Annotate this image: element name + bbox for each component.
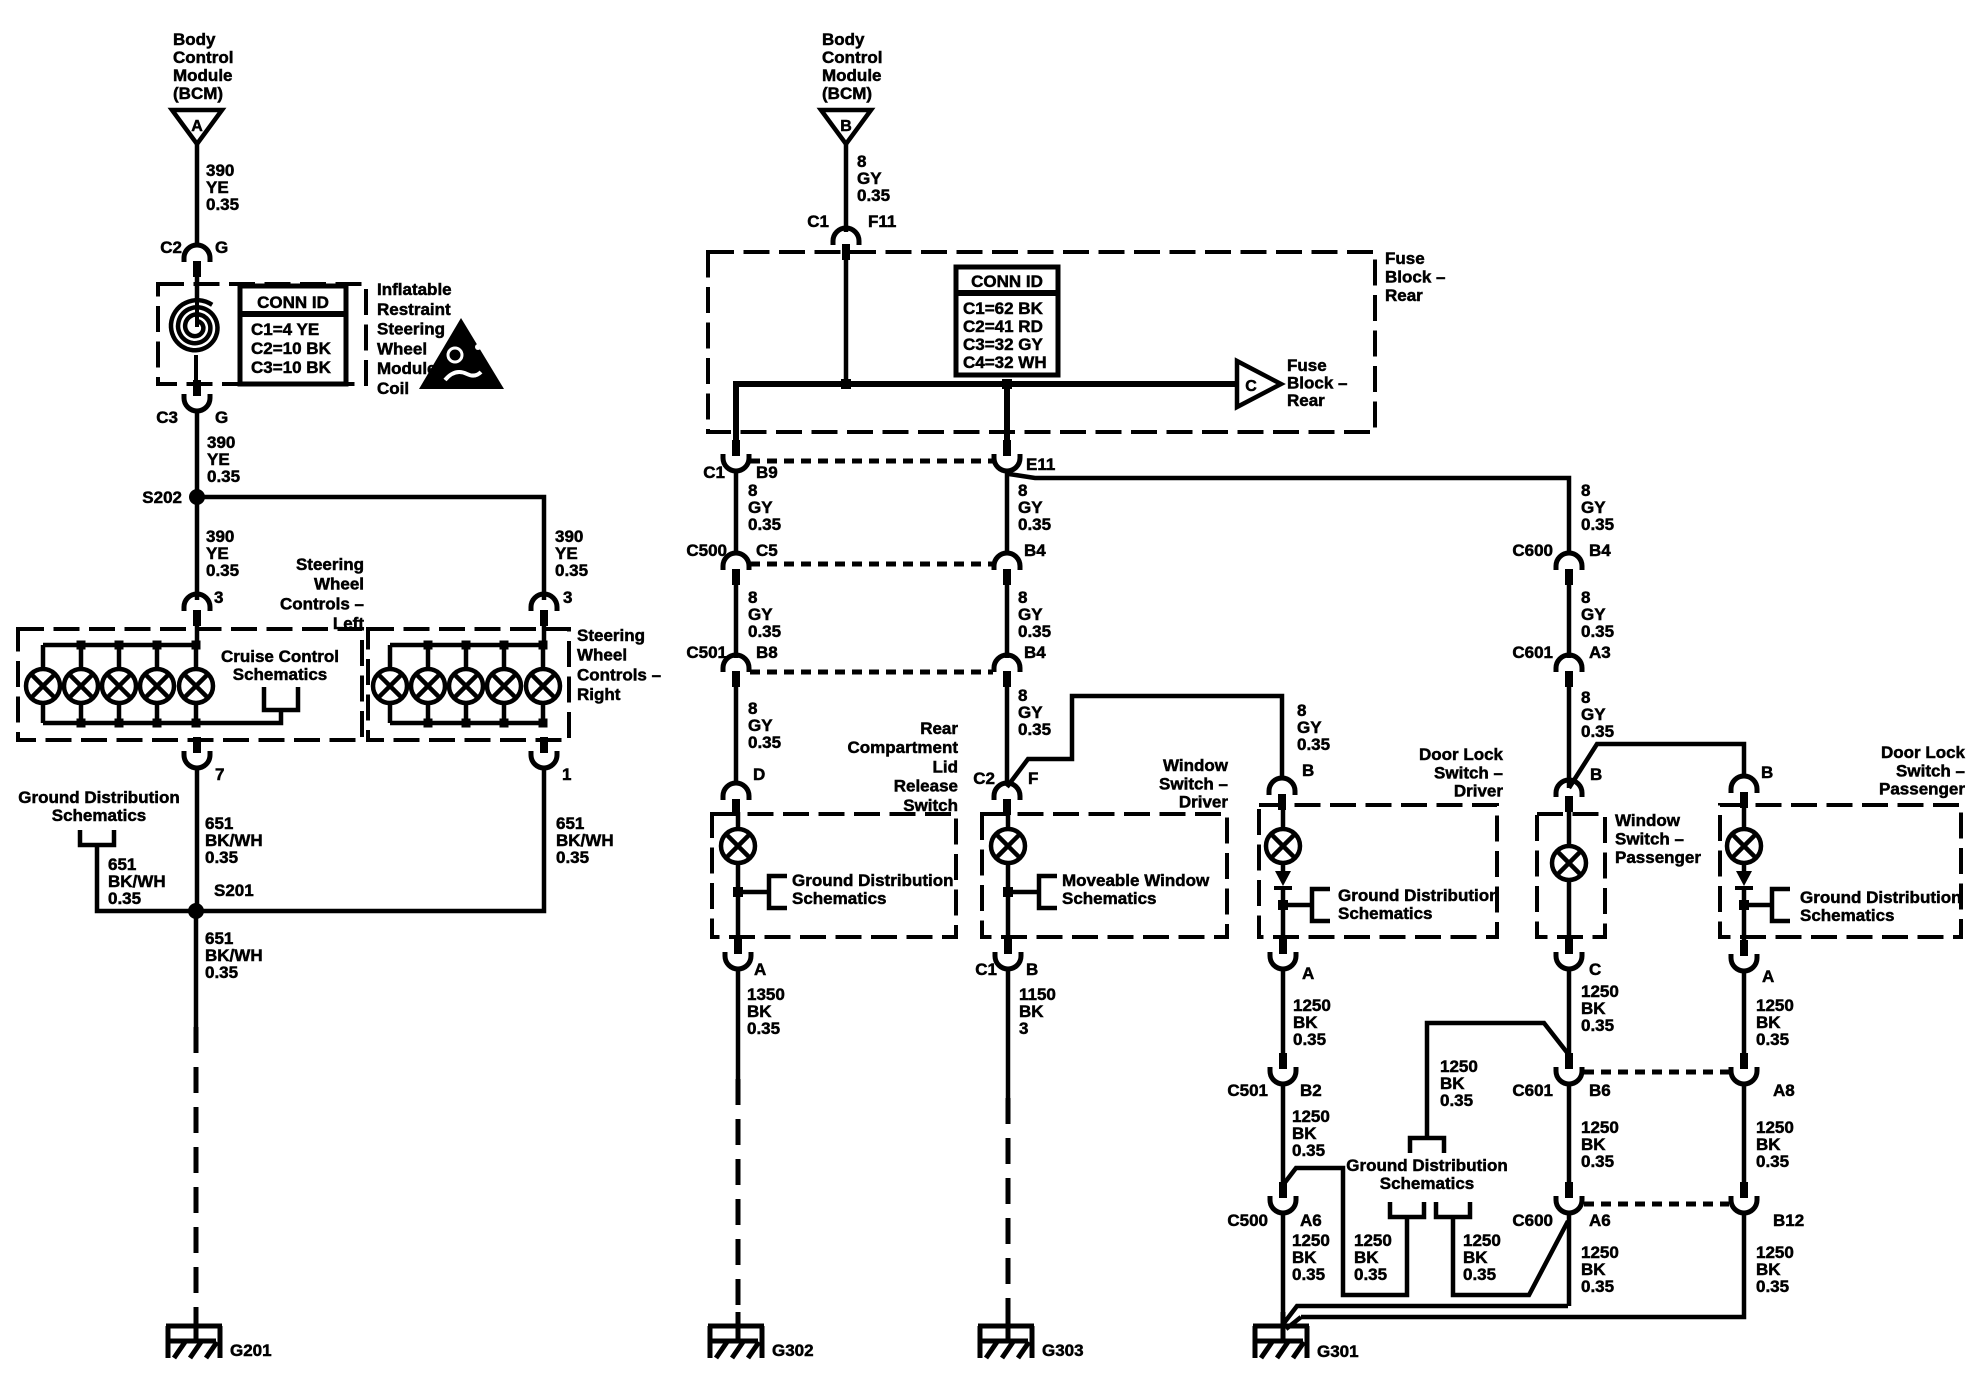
junction dot (door lock driver)	[1278, 900, 1288, 910]
connector C500 pin C5	[723, 553, 749, 570]
switch lamps bank right (5 lamps)	[388, 645, 393, 669]
svg-text:Rear: Rear	[1385, 286, 1423, 305]
svg-text:Rear: Rear	[1287, 391, 1325, 410]
wire E11 to C600/B4	[1007, 471, 1569, 553]
svg-text:Ground Distribution: Ground Distribution	[18, 788, 179, 807]
svg-text:Fuse: Fuse	[1287, 356, 1327, 375]
wire 8 GY A3 to window passenger pin B	[1567, 687, 1572, 788]
svg-text:Steering: Steering	[377, 320, 445, 339]
dashed box Steering Wheel Controls - Right	[368, 629, 569, 740]
wire bracket right to C600/A6	[1453, 1217, 1568, 1295]
svg-text:0.35: 0.35	[1581, 722, 1614, 741]
lamp bus bottom (right box)	[390, 721, 544, 726]
wire 8 GY E11 to B4	[1005, 471, 1010, 553]
svg-text:E11: E11	[1026, 455, 1055, 474]
wire 8 GY B4 to B4	[1005, 585, 1010, 658]
wire bus to E11	[1004, 384, 1010, 445]
svg-text:Door Lock: Door Lock	[1881, 743, 1966, 762]
svg-text:C601: C601	[1512, 1081, 1553, 1100]
svg-text:3: 3	[563, 588, 572, 607]
svg-text:(BCM): (BCM)	[173, 84, 223, 103]
wire lamp to diode (door lock passenger)	[1742, 863, 1747, 872]
svg-text:B4: B4	[1024, 643, 1046, 662]
connector C601 pin B6	[1565, 1053, 1573, 1069]
svg-text:C3=32 GY: C3=32 GY	[963, 335, 1044, 354]
connector pin D	[723, 783, 749, 800]
svg-text:Compartment: Compartment	[847, 738, 958, 757]
svg-text:G201: G201	[230, 1341, 272, 1360]
svg-text:C1: C1	[975, 960, 997, 979]
off-page bracket Ground Distribution (lid release)	[769, 876, 787, 908]
svg-text:C4=32 WH: C4=32 WH	[963, 353, 1047, 372]
wire 1250 BK B12 to ground bus	[1301, 1212, 1744, 1317]
CONN ID table (coil)	[240, 286, 346, 384]
diode symbol (door lock passenger)	[1736, 871, 1752, 886]
svg-text:C2: C2	[973, 769, 995, 788]
switch lamps bank left (5 lamps)	[41, 645, 46, 669]
switch lamp (rear lid release)	[721, 829, 755, 863]
svg-text:G301: G301	[1317, 1342, 1359, 1361]
svg-text:Ground Distribution: Ground Distribution	[792, 871, 953, 890]
ground G303	[1006, 1312, 1011, 1341]
svg-text:Driver: Driver	[1179, 793, 1229, 812]
svg-text:C2=10 BK: C2=10 BK	[251, 339, 332, 358]
dashed wire to ground G302	[736, 1079, 741, 1326]
svg-text:C600: C600	[1512, 541, 1553, 560]
connector B4 (1)	[994, 553, 1020, 570]
junction dot bus at F11 wire	[841, 379, 851, 389]
connector pin A (door lock passenger)	[1740, 940, 1748, 956]
wire 651 BK/WH from pin 7 to S201	[195, 766, 200, 911]
ground G301	[1281, 1312, 1286, 1341]
svg-text:C501: C501	[1227, 1081, 1268, 1100]
lamp bus top (left box)	[43, 643, 197, 648]
svg-text:Schematics: Schematics	[1380, 1174, 1475, 1193]
svg-text:0.35: 0.35	[206, 561, 239, 580]
svg-text:0.35: 0.35	[205, 848, 238, 867]
svg-text:S202: S202	[142, 488, 182, 507]
junction dot (lid release)	[733, 887, 743, 897]
connector pin 3 left	[184, 594, 210, 611]
svg-text:B2: B2	[1300, 1081, 1322, 1100]
svg-text:Switch –: Switch –	[1896, 761, 1965, 780]
connector pin A (lid release)	[734, 938, 742, 954]
dashed box Fuse Block - Rear	[708, 252, 1375, 432]
svg-text:0.35: 0.35	[1756, 1277, 1789, 1296]
wire branch B2 to ground distribution bracket (left)	[1283, 1168, 1407, 1295]
wire 1150 BK pin B to ground (solid)	[1006, 969, 1011, 1098]
CONN ID table (fuse block)	[956, 267, 1058, 375]
svg-text:0.35: 0.35	[1756, 1152, 1789, 1171]
svg-text:Schematics: Schematics	[1800, 906, 1895, 925]
svg-text:Schematics: Schematics	[233, 665, 328, 684]
svg-text:Controls –: Controls –	[280, 594, 364, 613]
svg-text:0.35: 0.35	[1581, 1277, 1614, 1296]
svg-text:B: B	[1026, 960, 1038, 979]
svg-text:Fuse: Fuse	[1385, 249, 1425, 268]
svg-text:1: 1	[562, 765, 571, 784]
wire 651 BK/WH S201 to G201 (solid part)	[194, 911, 199, 1027]
svg-text:7: 7	[215, 765, 224, 784]
connector pin 3 right	[531, 594, 557, 611]
svg-text:Switch –: Switch –	[1159, 774, 1228, 793]
connector E11	[1003, 440, 1011, 456]
wire C2 into coil box	[195, 277, 200, 302]
svg-text:0.35: 0.35	[748, 733, 781, 752]
svg-text:A3: A3	[1589, 643, 1611, 662]
wire lamp to diode (door lock driver)	[1281, 863, 1286, 872]
wire pin3 stub into right lamp bus	[542, 626, 547, 645]
connector C600 pin A6 (right)	[1565, 1182, 1573, 1198]
wire F11 stub into fuse block	[844, 260, 849, 384]
svg-text:B4: B4	[1589, 541, 1611, 560]
svg-text:Restraint: Restraint	[377, 300, 451, 319]
wire pin B into lamp (door lock driver)	[1281, 810, 1286, 829]
wire 1250 BK A8 to B12	[1742, 1082, 1747, 1182]
wire splice S202 branch to right steering controls	[197, 497, 544, 600]
svg-text:A: A	[191, 118, 203, 135]
svg-text:Block –: Block –	[1385, 268, 1445, 287]
off-page bracket Ground Distribution (upper, to C601 wire)	[1410, 1138, 1444, 1153]
svg-text:Wheel: Wheel	[377, 339, 427, 358]
connector pin A8	[1740, 1053, 1748, 1069]
svg-text:0.35: 0.35	[857, 186, 890, 205]
svg-text:C5: C5	[756, 541, 778, 560]
svg-text:0.35: 0.35	[1354, 1265, 1387, 1284]
connector pin 7	[193, 737, 201, 753]
connector pin B (window passenger)	[1556, 780, 1582, 797]
wire 390 YE from triangle A to C2	[195, 144, 200, 246]
svg-text:0.35: 0.35	[1440, 1091, 1473, 1110]
off-page arrow C to Fuse Block - Rear	[1237, 361, 1281, 407]
ground bus 1 from C600/A6	[1284, 1306, 1568, 1323]
connector C3 pin G	[193, 380, 201, 396]
svg-text:Schematics: Schematics	[792, 889, 887, 908]
svg-text:0.35: 0.35	[1292, 1265, 1325, 1284]
wire 8 GY from triangle B to C1/F11	[844, 144, 849, 232]
wire 1250 BK pin A to C501/B2	[1281, 969, 1286, 1053]
svg-text:0.35: 0.35	[1018, 720, 1051, 739]
svg-text:Cruise Control: Cruise Control	[221, 647, 339, 666]
connector B4 (2)	[994, 655, 1020, 672]
wire lamp to pin A with branch	[736, 863, 741, 938]
svg-text:B8: B8	[756, 643, 778, 662]
off-page bracket to Cruise Control Schematics	[264, 687, 298, 710]
splice S202	[189, 489, 205, 505]
svg-text:C1: C1	[807, 212, 829, 231]
wire pin F into lamp	[1006, 812, 1011, 829]
svg-text:B9: B9	[756, 463, 778, 482]
connector pin A (door lock driver)	[1279, 938, 1287, 954]
svg-text:B4: B4	[1024, 541, 1046, 560]
connector C1 pin B9	[732, 440, 740, 456]
dotted link C1/B9 to E11	[750, 459, 993, 464]
dashed box Door Lock Switch - Passenger	[1720, 805, 1961, 937]
svg-text:Lid: Lid	[933, 757, 959, 776]
svg-text:F11: F11	[868, 212, 896, 231]
wire 1250 BK B2 to C500/A6	[1281, 1082, 1286, 1182]
off-page bracket Ground Distribution (door lock passenger)	[1772, 889, 1790, 921]
svg-text:Driver: Driver	[1454, 782, 1504, 801]
dotted link B6 to A8	[1584, 1070, 1729, 1075]
wire 1350 BK pin A to ground (solid)	[736, 969, 741, 1079]
svg-text:Module: Module	[822, 66, 882, 85]
svg-text:Controls –: Controls –	[577, 665, 661, 684]
off-page bracket Ground Distribution (bottom right)	[1436, 1202, 1470, 1217]
svg-text:Switch –: Switch –	[1434, 763, 1503, 782]
wire junction to bracket (door lock driver)	[1283, 903, 1312, 908]
svg-text:0.35: 0.35	[1581, 1016, 1614, 1035]
svg-text:C3: C3	[156, 408, 178, 427]
wire junction to bracket (door lock passenger)	[1744, 903, 1772, 908]
junction dots left lamp bus	[77, 641, 86, 650]
svg-text:A: A	[1302, 964, 1314, 983]
svg-text:Body: Body	[822, 30, 865, 49]
connector C2 pin F	[994, 783, 1020, 800]
wire branch to Door Lock Switch Passenger pin B	[1569, 744, 1744, 788]
dotted link B8 to B4	[750, 670, 993, 675]
splice S201	[188, 903, 204, 919]
warning triangle SIR caution icon	[419, 318, 504, 389]
lamp bus bottom (left box)	[43, 712, 281, 723]
off-page bracket Ground Distribution (bottom left)	[1390, 1202, 1424, 1217]
svg-text:0.35: 0.35	[1463, 1265, 1496, 1284]
svg-text:Inflatable: Inflatable	[377, 280, 452, 299]
svg-text:F: F	[1028, 769, 1038, 788]
svg-text:0.35: 0.35	[205, 963, 238, 982]
svg-text:C501: C501	[686, 643, 727, 662]
dashed box Steering Wheel Controls - Left	[18, 629, 362, 740]
dotted link A6 to B12	[1584, 1202, 1729, 1207]
svg-text:B: B	[1302, 761, 1314, 780]
bus wire inside fuse block	[736, 384, 1237, 445]
svg-text:D: D	[753, 765, 765, 784]
svg-text:B6: B6	[1589, 1081, 1611, 1100]
svg-text:Window: Window	[1163, 756, 1229, 775]
svg-text:A: A	[754, 960, 766, 979]
dashed box Door Lock Switch - Driver	[1259, 805, 1497, 937]
dotted link C5 to B4	[750, 562, 993, 567]
wire 651 BK/WH from pin 1 to S201	[196, 766, 544, 911]
svg-text:Coil: Coil	[377, 379, 409, 398]
svg-text:Control: Control	[822, 48, 882, 67]
svg-text:C500: C500	[1227, 1211, 1268, 1230]
dashed wire to ground G201	[194, 1027, 199, 1326]
svg-text:B: B	[840, 118, 852, 135]
svg-text:0.35: 0.35	[1018, 622, 1051, 641]
svg-text:G302: G302	[772, 1341, 814, 1360]
svg-text:C1=62 BK: C1=62 BK	[963, 299, 1044, 318]
connector pin B12	[1740, 1182, 1748, 1198]
ground bus 2 diagonal into G301	[1286, 1317, 1301, 1329]
wire lamp to pin C	[1567, 880, 1572, 938]
diode symbol (door lock driver)	[1275, 871, 1291, 886]
svg-text:0.35: 0.35	[206, 195, 239, 214]
dashed box Window Switch - Driver	[982, 814, 1227, 937]
svg-text:Wheel: Wheel	[314, 575, 364, 594]
svg-text:Release: Release	[894, 777, 958, 796]
svg-text:Block –: Block –	[1287, 374, 1347, 393]
svg-text:C: C	[1589, 960, 1601, 979]
junction dot bus at E11 wire	[1002, 379, 1012, 389]
wire 390 YE from C3 to splice S202	[195, 409, 200, 497]
svg-text:G: G	[215, 238, 228, 257]
svg-text:0.35: 0.35	[1293, 1030, 1326, 1049]
svg-text:0.35: 0.35	[207, 467, 240, 486]
dashed wire to ground G303	[1006, 1098, 1011, 1326]
svg-text:0.35: 0.35	[1756, 1030, 1789, 1049]
svg-text:0.35: 0.35	[747, 1019, 780, 1038]
off-page connector triangle A (BCM)	[172, 110, 222, 144]
svg-text:C500: C500	[686, 541, 727, 560]
svg-text:C1: C1	[703, 463, 725, 482]
svg-text:Steering: Steering	[296, 555, 364, 574]
wire 8 GY B4 to C601/A3	[1567, 585, 1572, 658]
svg-text:Switch –: Switch –	[1615, 830, 1684, 849]
connector C600 pin B4	[1556, 553, 1582, 570]
svg-text:0.35: 0.35	[555, 561, 588, 580]
off-page connector triangle B (BCM)	[821, 110, 871, 144]
wire pin D into lamp	[736, 812, 741, 829]
wire pin B into lamp (window passenger)	[1567, 812, 1572, 846]
svg-text:Schematics: Schematics	[1338, 904, 1433, 923]
dashed box Inflatable Restraint Steering Wheel Module Coil	[158, 284, 366, 384]
wire 8 GY B8 to switch pin D	[734, 687, 739, 783]
wire 8 GY B9 to C500/C5	[734, 471, 739, 553]
dashed box Window Switch - Passenger	[1537, 814, 1605, 937]
wire 1250 BK pin A to A8	[1742, 971, 1747, 1053]
wire 8 GY C5 to C501/B8	[734, 585, 739, 658]
svg-text:Passenger: Passenger	[1879, 780, 1965, 799]
wire 1250 BK A6 to ground bus	[1567, 1212, 1572, 1306]
wire 1250 BK A6 to ground G301	[1281, 1212, 1286, 1341]
dashed box Rear Compartment Lid Release Switch	[712, 814, 956, 937]
svg-text:Body: Body	[173, 30, 216, 49]
svg-text:0.35: 0.35	[1297, 735, 1330, 754]
svg-text:(BCM): (BCM)	[822, 84, 872, 103]
clockspring coil symbol	[171, 300, 218, 350]
wire bracket to S201 node	[97, 845, 196, 911]
wire branch to Door Lock Switch Driver pin B	[1007, 696, 1282, 787]
svg-text:C: C	[1245, 378, 1257, 395]
wire diode to pin A (door lock passenger)	[1742, 888, 1747, 940]
switch lamp (window passenger)	[1552, 846, 1586, 880]
wire splice S202 down to pin 3 left	[195, 497, 200, 600]
wire diode to pin A (door lock driver)	[1281, 888, 1286, 938]
svg-text:0.35: 0.35	[748, 622, 781, 641]
svg-text:A6: A6	[1589, 1211, 1611, 1230]
svg-text:B: B	[1590, 765, 1602, 784]
connector C500 pin A6	[1279, 1182, 1287, 1198]
svg-text:C601: C601	[1512, 643, 1553, 662]
junction dot (door lock passenger)	[1739, 900, 1749, 910]
off-page bracket Ground Distribution (left)	[80, 830, 114, 845]
svg-text:0.35: 0.35	[108, 889, 141, 908]
svg-text:G303: G303	[1042, 1341, 1084, 1360]
svg-text:Window: Window	[1615, 811, 1681, 830]
svg-text:0.35: 0.35	[1018, 515, 1051, 534]
svg-text:S201: S201	[214, 881, 254, 900]
svg-text:C2=41 RD: C2=41 RD	[963, 317, 1043, 336]
switch lamp (door lock driver)	[1266, 829, 1300, 863]
svg-text:0.35: 0.35	[1581, 622, 1614, 641]
switch lamp (door lock passenger)	[1727, 829, 1761, 863]
svg-text:C3=10 BK: C3=10 BK	[251, 358, 332, 377]
connector pin 1	[540, 737, 548, 753]
svg-text:A: A	[1762, 967, 1774, 986]
connector pin B (door lock passenger)	[1731, 776, 1757, 793]
svg-text:Schematics: Schematics	[1062, 889, 1157, 908]
svg-text:A8: A8	[1773, 1081, 1795, 1100]
wire 1250 BK B6 to C600/A6	[1567, 1082, 1572, 1182]
wire 1250 BK pin C to C601/B6	[1567, 969, 1572, 1053]
connector C2 pin G	[184, 245, 210, 262]
svg-text:B12: B12	[1773, 1211, 1804, 1230]
svg-text:Module: Module	[173, 66, 233, 85]
off-page bracket Ground Distribution (door lock driver)	[1312, 889, 1330, 921]
connector pin B (door lock driver)	[1269, 778, 1295, 795]
wire junction to bracket (window driver)	[1008, 890, 1039, 895]
svg-text:C600: C600	[1512, 1211, 1553, 1230]
ground G302	[736, 1312, 741, 1341]
svg-text:C1=4 YE: C1=4 YE	[251, 320, 319, 339]
svg-text:B: B	[1761, 763, 1773, 782]
wire 8 GY B4 to C2/F	[1005, 687, 1010, 783]
svg-text:Schematics: Schematics	[52, 806, 147, 825]
svg-text:CONN ID: CONN ID	[971, 272, 1043, 291]
svg-text:3: 3	[214, 588, 223, 607]
svg-text:0.35: 0.35	[1292, 1141, 1325, 1160]
svg-text:Ground Distribution: Ground Distribution	[1346, 1156, 1507, 1175]
svg-text:Ground Distribution: Ground Distribution	[1338, 886, 1499, 905]
connector C1 pin F11	[833, 228, 859, 245]
connector C601 pin A3	[1556, 655, 1582, 672]
svg-text:CONN ID: CONN ID	[257, 293, 329, 312]
wire upper bracket to window passenger C wire	[1427, 1023, 1569, 1138]
svg-text:C2: C2	[160, 238, 182, 257]
svg-text:Door Lock: Door Lock	[1419, 745, 1504, 764]
lamp bus top (right box)	[390, 643, 544, 648]
svg-text:A6: A6	[1300, 1211, 1322, 1230]
svg-text:0.35: 0.35	[1581, 1152, 1614, 1171]
svg-text:Steering: Steering	[577, 626, 645, 645]
connector pin C (window passenger)	[1565, 938, 1573, 954]
svg-text:Rear: Rear	[920, 719, 958, 738]
connector C501 pin B2	[1279, 1053, 1287, 1069]
svg-text:Passenger: Passenger	[1615, 848, 1701, 867]
svg-text:Right: Right	[577, 685, 621, 704]
svg-text:Moveable Window: Moveable Window	[1062, 871, 1210, 890]
wire pin B into lamp (door lock passenger)	[1742, 808, 1747, 829]
svg-text:Wheel: Wheel	[577, 646, 627, 665]
svg-text:0.35: 0.35	[1581, 515, 1614, 534]
ground G201	[194, 1312, 199, 1341]
svg-text:Control: Control	[173, 48, 233, 67]
wire lamp to pin B/C1 with branch	[1006, 863, 1011, 938]
svg-text:Switch: Switch	[903, 796, 958, 815]
svg-text:Ground Distribution: Ground Distribution	[1800, 888, 1961, 907]
svg-text:0.35: 0.35	[556, 848, 589, 867]
off-page bracket Moveable Window Schematics	[1039, 876, 1057, 908]
connector C501 pin B8	[723, 655, 749, 672]
svg-text:3: 3	[1019, 1019, 1028, 1038]
wire junction to bracket	[738, 890, 769, 895]
switch lamp (window driver)	[991, 829, 1025, 863]
svg-text:0.35: 0.35	[748, 515, 781, 534]
junction dot (window driver)	[1003, 887, 1013, 897]
junction dots right lamp bus	[424, 641, 433, 650]
svg-text:G: G	[215, 408, 228, 427]
